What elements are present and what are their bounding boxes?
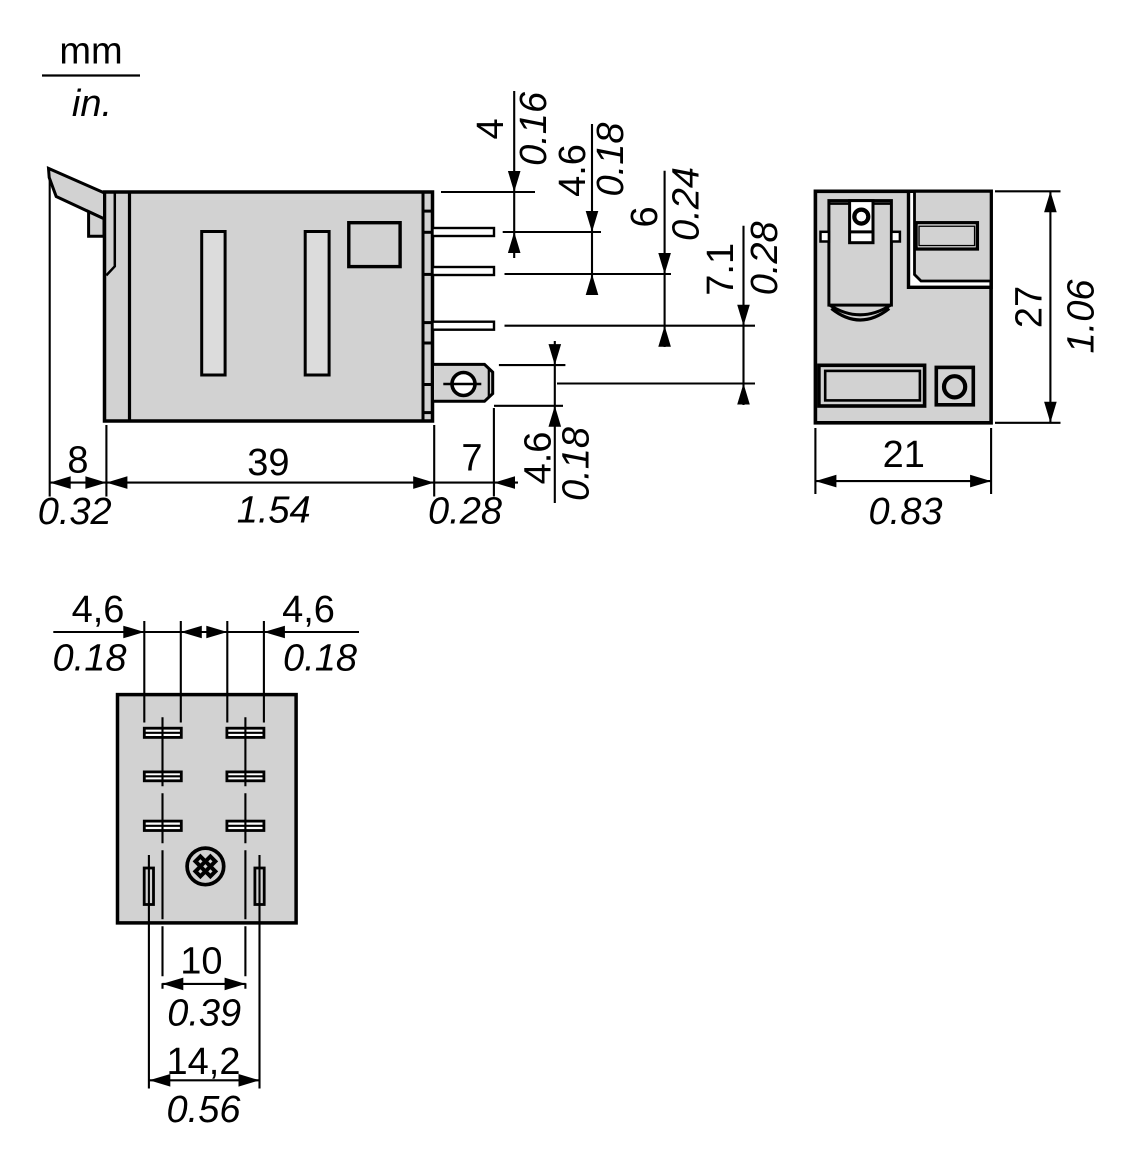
ext line body right bottom (433, 425, 435, 497)
bottom view slot r1c2 midline (227, 732, 264, 734)
side view lever step (89, 212, 104, 237)
ext line tab top (499, 364, 566, 366)
ext line bv slot2 left (226, 621, 228, 723)
ext line lever tip (49, 178, 51, 497)
svg-text:4: 4 (470, 118, 512, 139)
dim text 6 (624, 206, 666, 227)
side view notch line (106, 192, 115, 275)
ext line tab center (557, 382, 755, 384)
ext line end view bottom left2 (814, 428, 816, 494)
ext line body top right (441, 191, 535, 193)
dim text 4.6 upper (552, 144, 594, 197)
side view slot 2 (305, 232, 329, 376)
dim text 0.16 (513, 91, 555, 166)
end view bottom right square (936, 367, 973, 404)
svg-text:1.54: 1.54 (237, 490, 311, 532)
bottom view slot r3c2 midline (227, 825, 264, 827)
faston tab fold line (488, 368, 490, 397)
svg-text:7: 7 (461, 438, 482, 480)
end view label window outer (916, 223, 977, 249)
dim text 0.18 upper (590, 123, 632, 197)
bottom view pin slot 1 (144, 868, 153, 905)
bottom view slot r2c2 (227, 772, 264, 781)
dim text 0.24 (666, 167, 708, 241)
dim line 6/0.24 (664, 171, 666, 347)
end view coil circle (854, 210, 868, 224)
ext line tab right bottom (493, 408, 495, 497)
bottom view slot r2c2 midline (227, 775, 264, 777)
ext line body left bottom (105, 425, 107, 497)
svg-text:27: 27 (1009, 286, 1051, 328)
dim text 1.06 (1061, 279, 1103, 354)
ext line pin3 (505, 325, 756, 327)
svg-text:0.16: 0.16 (513, 91, 555, 166)
end view coil lower arc 2 (831, 309, 889, 321)
dim line 7.1/0.28 (742, 226, 744, 405)
svg-text:0.28: 0.28 (428, 491, 502, 533)
bottom view keying diamonds (195, 856, 215, 876)
svg-text:mm: mm (59, 30, 122, 72)
svg-text:21: 21 (883, 434, 925, 476)
bottom view column centerline 2 (244, 717, 246, 988)
side view inner vertical line left (128, 192, 131, 421)
svg-text:7.1: 7.1 (700, 243, 742, 296)
end view left lug (821, 232, 829, 242)
pin 1 (433, 228, 495, 236)
bottom dim line 8-39-7 (50, 482, 518, 484)
end view top right block inner panel (915, 191, 992, 281)
svg-text:0.24: 0.24 (666, 167, 708, 241)
ext line end view bottom right (995, 422, 1061, 424)
bottom view pin centerline 2 (258, 855, 260, 1089)
dim line 4.6/0.18 upper (591, 124, 593, 295)
bottom view keying circle (187, 848, 224, 885)
dim text 4.6 tab (518, 432, 560, 485)
svg-text:4.6: 4.6 (518, 432, 560, 485)
end view body (815, 191, 991, 422)
end view coil center rect (850, 201, 873, 243)
side view body (105, 192, 433, 421)
side view lever (49, 168, 105, 219)
faston tab (433, 364, 493, 401)
side view square window (349, 223, 400, 267)
svg-text:4.6: 4.6 (552, 144, 594, 197)
bottom view slot r3c1 midline (144, 825, 181, 827)
pin 2 (433, 267, 495, 275)
svg-text:8: 8 (67, 440, 88, 482)
end view coil (829, 201, 892, 306)
bottom view slot r2c1 midline (144, 775, 181, 777)
ext line bv slot2 right (263, 621, 265, 723)
svg-text:14,2: 14,2 (167, 1041, 241, 1083)
bottom view slot r3c1 (144, 821, 181, 830)
end view coil lower arc (829, 305, 892, 315)
ext line pin2 (505, 273, 672, 275)
svg-text:0.56: 0.56 (167, 1089, 242, 1131)
dim line tab 4.6/0.18 (554, 341, 556, 503)
svg-text:0.39: 0.39 (167, 993, 241, 1035)
end view bottom right circle (944, 376, 965, 397)
ext line end view top right (995, 190, 1061, 192)
faston tab hole (452, 373, 475, 396)
svg-text:0.18: 0.18 (590, 123, 632, 197)
svg-text:39: 39 (247, 442, 289, 484)
dim text 0.18 tab (556, 427, 598, 501)
dim line 27/1.06 (1049, 191, 1051, 422)
bottom view slot r1c1 (144, 728, 181, 737)
dim line 21/0.83 (815, 480, 991, 482)
bv top dim line (53, 631, 359, 633)
svg-text:0.18: 0.18 (556, 427, 598, 501)
legend fraction line (42, 74, 140, 76)
svg-text:1.06: 1.06 (1061, 279, 1103, 354)
faston tab hole slot line (443, 383, 481, 386)
svg-text:4,6: 4,6 (72, 589, 125, 631)
bottom view slot r3c2 (227, 821, 264, 830)
dim text 0.28 (744, 221, 786, 295)
end view bottom left block inner (825, 371, 920, 401)
bv dim line 14,2 (149, 1079, 259, 1081)
pin 3 (433, 322, 495, 330)
side view inner vertical line right (pin carrier) (422, 192, 425, 421)
bottom view slot r2c1 (144, 772, 181, 781)
svg-text:0.83: 0.83 (869, 491, 943, 533)
ext line bv slot1 left (143, 621, 145, 723)
svg-text:10: 10 (180, 940, 222, 982)
end view label window inner (919, 226, 975, 245)
side view slot 1 (202, 232, 225, 376)
dim line 4/0.16 (513, 91, 515, 258)
dim text 7.1 (700, 243, 742, 296)
svg-text:0.28: 0.28 (744, 221, 786, 295)
svg-text:0.18: 0.18 (53, 638, 127, 680)
end view bottom left block (819, 365, 925, 406)
ext line bv slot1 right (180, 621, 182, 723)
svg-text:4,6: 4,6 (282, 589, 335, 631)
bottom view body (118, 695, 297, 923)
end view coil top band (829, 202, 892, 205)
dim text 4 (470, 118, 512, 139)
svg-text:in.: in. (72, 83, 112, 125)
end view right lug (891, 232, 900, 242)
ext line end view bottom right2 (990, 428, 992, 494)
bottom view pin slot 2 (255, 868, 264, 905)
ext line tab bottom (494, 405, 563, 407)
end view top right block outer (white channel) (909, 191, 992, 287)
bottom view column centerline 1 (161, 717, 163, 988)
svg-text:0.32: 0.32 (38, 491, 112, 533)
dim text 27 (1009, 286, 1051, 328)
svg-text:6: 6 (624, 206, 666, 227)
end view coil center divider (850, 230, 873, 233)
bottom view slot r1c1 midline (144, 732, 181, 734)
ext line pin1 (503, 231, 601, 233)
bottom view slot r1c2 (227, 728, 264, 737)
pin carrier dividers (424, 210, 432, 415)
bv dim line 10 (162, 983, 245, 985)
bottom view pin centerline 1 (148, 855, 150, 1089)
svg-text:0.18: 0.18 (283, 638, 357, 680)
